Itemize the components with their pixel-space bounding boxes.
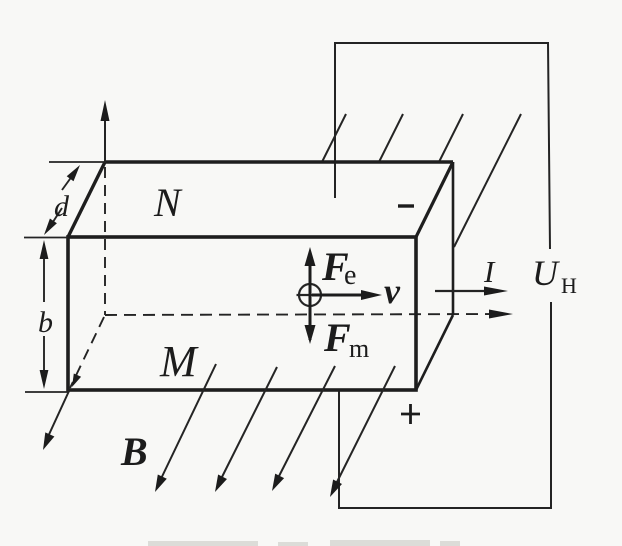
- B field line lower 4: [333, 366, 395, 490]
- svg-text:m: m: [349, 334, 369, 363]
- B field line upper 4: [454, 114, 521, 247]
- electron symbol (circle with plus): [299, 284, 321, 306]
- force Fe arrow (up): [309, 262, 312, 340]
- slab hidden edge: back-bottom (dashed), extended as current direction line: [105, 314, 497, 315]
- svg-text:v: v: [384, 271, 401, 311]
- svg-text:I: I: [483, 254, 496, 289]
- B field line lower 2: [218, 367, 277, 485]
- B field line upper 1: [323, 114, 347, 161]
- force Fm arrow (down): [305, 325, 316, 344]
- slab top-right receding edge: [416, 162, 453, 237]
- slab top-left receding edge: [68, 162, 105, 237]
- minus terminal: [398, 204, 414, 207]
- slab back-right vertical edge: [452, 162, 455, 315]
- svg-text:M: M: [159, 337, 199, 386]
- svg-text:d: d: [54, 190, 70, 223]
- svg-text:F: F: [323, 315, 351, 360]
- B field line upper 2: [380, 114, 404, 161]
- svg-text:b: b: [38, 306, 53, 339]
- slab hidden edge: bottom-left receding (dashed): [70, 317, 104, 388]
- wire: top lead from negative electrode: [335, 43, 550, 249]
- b dimension double arrow: [43, 253, 45, 302]
- svg-text:N: N: [153, 180, 183, 225]
- svg-text:B: B: [120, 429, 148, 474]
- svg-text:e: e: [344, 260, 356, 291]
- d dimension lower arrow: [49, 208, 62, 228]
- wire: bottom lead from positive electrode: [339, 302, 551, 508]
- plus terminal: [401, 413, 420, 416]
- svg-text:H: H: [561, 273, 577, 298]
- d dimension upper arrow: [62, 172, 75, 190]
- arrowhead of dashed current line: [489, 310, 513, 319]
- tick at front-top edge (left extension): [24, 237, 68, 239]
- slab hidden edge: back-left vertical (dashed): [104, 167, 106, 315]
- small arrowhead on B line at front-bottom-left corner: [72, 374, 81, 388]
- axis arrow (up) at top-left corner: [104, 118, 106, 163]
- tick for d dimension (top): [49, 161, 105, 163]
- slab bottom-right receding edge: [416, 315, 453, 390]
- svg-text:U: U: [532, 253, 560, 293]
- velocity v arrow (right): [312, 294, 364, 297]
- slab back-top edge: [105, 160, 453, 163]
- B field line lower 3: [275, 366, 335, 484]
- B field line lower 1: [158, 364, 216, 485]
- B field line upper 3: [440, 114, 464, 161]
- tick at front-bottom edge (left extension): [25, 391, 68, 393]
- current I arrow: [435, 290, 490, 292]
- B field line lower 0 (through corner): [46, 391, 69, 441]
- caption remnant (cut-off text at bottom): [148, 540, 460, 546]
- slab front face outline: [68, 237, 416, 390]
